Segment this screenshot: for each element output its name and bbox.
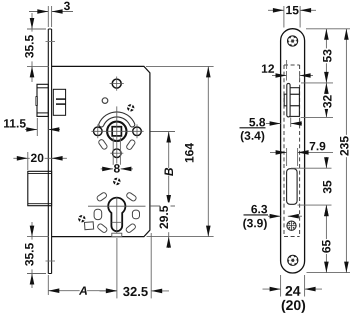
latch cutout ext lines [286, 71, 288, 81]
arc slot above follower [99, 112, 135, 127]
svg-text:35.5: 35.5 [23, 242, 37, 266]
dim A backset [47, 275, 49, 295]
top torx screw [287, 36, 297, 46]
svg-text:(3.4): (3.4) [240, 129, 265, 143]
latch bolt (side view) [37, 84, 48, 116]
dim 164 body height [146, 65, 214, 67]
svg-text:235: 235 [337, 136, 350, 156]
hole left of follower [94, 127, 103, 136]
slot below-right of follower [126, 139, 136, 150]
svg-text:32.5: 32.5 [123, 284, 148, 299]
svg-text:35.5: 35.5 [23, 34, 37, 58]
phillips screw mark above cylinder [112, 177, 122, 187]
svg-text:65: 65 [320, 240, 334, 254]
dim 35.5 bottom [27, 236, 49, 238]
screw center tick top [46, 41, 56, 43]
square slot [84, 222, 93, 230]
dim 15 case width [283, 6, 285, 28]
svg-text:3: 3 [64, 0, 71, 13]
middle screw hole with cross [287, 221, 296, 230]
dim 29.5 cylinder to bottom [168, 206, 170, 237]
hole below follower [113, 149, 122, 158]
cylinder cutout slot [287, 169, 298, 205]
bottom torx screw [288, 255, 298, 265]
dim 35.5 top [27, 28, 46, 30]
svg-text:6.3: 6.3 [251, 202, 268, 216]
faceplate (side view) [47, 29, 49, 274]
svg-text:32: 32 [320, 95, 334, 109]
svg-text:8: 8 [114, 161, 121, 175]
svg-text:12: 12 [261, 62, 275, 76]
small pin hole [102, 98, 108, 104]
svg-text:(20): (20) [281, 297, 306, 313]
dim 6.3 (3.9) [268, 215, 281, 217]
fixing tab at body bottom [112, 233, 122, 236]
hole right of follower [133, 127, 142, 136]
dim B follower to cylinder [150, 131, 175, 133]
dim 3 faceplate thickness [47, 6, 49, 27]
latch bolt front view [284, 94, 299, 106]
top screw hole [112, 79, 121, 88]
deadbolt (side view) [28, 171, 52, 205]
dim 235 total height [345, 29, 347, 273]
dim 53 [306, 28, 350, 30]
svg-text:15: 15 [286, 3, 300, 17]
phillips screw mark upper [126, 103, 135, 112]
phillips screw mark lower-left [77, 214, 86, 223]
euro cylinder slots around [96, 192, 107, 202]
dim 11.5 latch projection [36, 118, 38, 136]
svg-text:20: 20 [31, 151, 45, 165]
svg-text:164: 164 [183, 143, 197, 163]
svg-text:35: 35 [320, 180, 334, 194]
dim 32.5 [150, 233, 152, 298]
svg-text:(3.9): (3.9) [243, 216, 268, 230]
svg-text:B: B [162, 167, 176, 176]
svg-text:5.8: 5.8 [249, 115, 266, 129]
slot below-left of follower [98, 139, 108, 150]
dim 35 cylinder slot [291, 167, 332, 169]
follower hub [107, 122, 126, 141]
dim 65 [307, 272, 350, 274]
euro profile cylinder hole [108, 198, 125, 232]
screw center tick bottom [46, 260, 56, 262]
dim 32 [301, 116, 333, 118]
svg-text:11.5: 11.5 [3, 116, 26, 130]
dim 12 latch cutout width [286, 60, 288, 69]
dim 8 follower square [112, 138, 114, 166]
dim 5.8 (3.4) [290, 117, 292, 127]
svg-text:53: 53 [320, 49, 334, 63]
faceplate front view outline [281, 29, 305, 273]
latch follower box inside body [53, 89, 65, 115]
dim 20 deadbolt throw [27, 152, 29, 170]
svg-text:A: A [78, 284, 88, 298]
svg-text:29.5: 29.5 [157, 205, 171, 229]
dim 7.9 [286, 148, 288, 166]
follower centerlines [91, 130, 143, 132]
lock body (side view) [52, 66, 150, 236]
hidden lock case dashed lines [283, 65, 285, 237]
dim 24 / (20) plate width [280, 275, 282, 297]
cylinder centerlines [88, 205, 146, 207]
svg-text:7.9: 7.9 [309, 139, 326, 153]
